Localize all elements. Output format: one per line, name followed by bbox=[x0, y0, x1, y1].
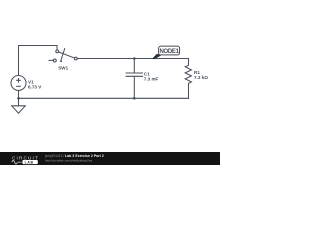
wire V1 bottom to ground bbox=[18, 91, 20, 106]
footer bar bbox=[0, 152, 220, 165]
junction dot at C1 bottom bbox=[133, 97, 136, 100]
voltage source V1 bbox=[11, 76, 26, 91]
svg-text:7.3 kΩ: 7.3 kΩ bbox=[194, 75, 208, 80]
svg-text:NODE1: NODE1 bbox=[160, 49, 180, 55]
wire from SW1 to resistor corner bbox=[77, 58, 188, 60]
svg-text:LAB: LAB bbox=[25, 160, 34, 164]
capacitor C1 bbox=[126, 59, 142, 99]
resistor R1 bbox=[185, 59, 191, 99]
wire from V1 top up and right to SW1 bbox=[19, 46, 58, 76]
svg-text:7.3 mF: 7.3 mF bbox=[144, 77, 159, 82]
svg-text:6.73 V: 6.73 V bbox=[28, 85, 42, 90]
ground bbox=[12, 106, 26, 113]
svg-text:http://circuitlab.com/c/hw5ykb: http://circuitlab.com/c/hw5ykbzpy2ea bbox=[45, 159, 92, 163]
node junction dot at C1 top bbox=[133, 57, 136, 60]
circuitlab logo bbox=[12, 156, 39, 165]
bottom wire bbox=[19, 97, 189, 99]
junction dot at ground bbox=[17, 97, 20, 100]
node label NODE1 bbox=[152, 46, 180, 59]
svg-text:SW1: SW1 bbox=[58, 66, 68, 71]
switch SW1 bbox=[49, 49, 77, 63]
